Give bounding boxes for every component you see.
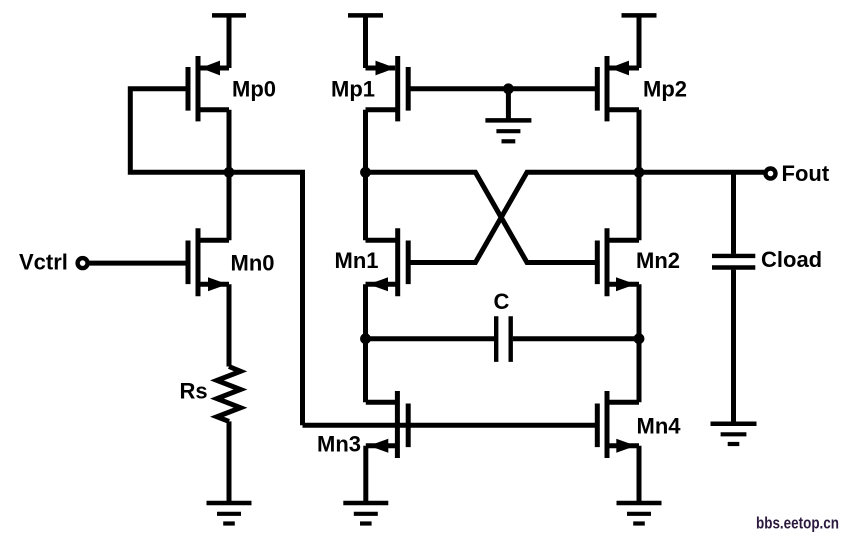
- wire Vctrl to Mn0 gate: [89, 261, 188, 266]
- terminal Vctrl: [78, 258, 88, 268]
- svg-text:C: C: [494, 289, 510, 314]
- ground below Rs: [207, 503, 252, 524]
- svg-text:Rs: Rs: [180, 379, 208, 404]
- wire Mn4 source to ground: [637, 446, 642, 503]
- wire cross-couple: Mp2 node to Mn1 gate: [408, 172, 639, 262]
- resistor Rs: [217, 367, 241, 422]
- node E: capacitor left junction: [360, 333, 371, 344]
- svg-text:Mn2: Mn2: [636, 248, 680, 273]
- transistor Mn0: [188, 228, 229, 296]
- svg-text:bbs.eetop.cn: bbs.eetop.cn: [756, 514, 839, 533]
- ground at Mp1/Mp2 gate bus: [485, 89, 531, 142]
- svg-text:Mn1: Mn1: [335, 248, 379, 273]
- VDD supply bar above Mp1: [348, 15, 383, 68]
- transistor Mn2: [597, 228, 639, 296]
- transistor Mn1: [366, 228, 409, 296]
- transistor Mn3: [366, 391, 408, 458]
- transistor Mp2: [597, 56, 639, 121]
- node A: Mp0 drain junction: [224, 167, 235, 178]
- node D: Mp2 drain junction: [634, 167, 645, 178]
- node B: gate-bus ground junction: [503, 83, 514, 94]
- wire resistor to ground: [227, 421, 232, 503]
- capacitor C: [496, 316, 511, 362]
- wire Mp0 gate feedback loop to drain node and down to Mn3 gate: [130, 89, 302, 426]
- wire Fout node down to Cload: [731, 172, 736, 254]
- transistor Mp0: [188, 56, 229, 121]
- wire Mn2 source down through C node to Mn4 drain: [637, 284, 642, 402]
- wire cross-couple: Mp1 node to Mn2 gate: [366, 172, 598, 262]
- svg-text:Fout: Fout: [782, 161, 830, 186]
- capacitor Cload: [712, 256, 755, 268]
- ground below Mn4: [617, 503, 662, 524]
- svg-text:Vctrl: Vctrl: [19, 250, 68, 275]
- wire Mp1 drain through node down to Mn1 drain: [363, 110, 368, 241]
- wire C node left to capacitor: [366, 336, 495, 341]
- wire Mn1 source down through C node to Mn3 drain: [363, 284, 368, 402]
- wire Mn0 drain up to node A: [227, 172, 232, 240]
- wire Cload to ground: [731, 270, 736, 424]
- transistor Mp1: [366, 56, 409, 121]
- svg-text:Mn4: Mn4: [637, 414, 682, 439]
- transistor Mn4: [597, 391, 639, 458]
- wire output node to Fout terminal: [639, 170, 764, 175]
- svg-text:Mp0: Mp0: [232, 77, 276, 102]
- svg-text:Mp1: Mp1: [331, 77, 375, 102]
- svg-text:Mn0: Mn0: [231, 251, 275, 276]
- wire Mn3 source to ground: [363, 446, 368, 503]
- ground below Cload: [711, 424, 757, 444]
- node C1: Mp1 drain junction: [360, 167, 371, 178]
- VDD supply bar above Mp2: [622, 15, 657, 68]
- wire capacitor to C node right: [513, 336, 639, 341]
- node F: capacitor right junction: [634, 333, 645, 344]
- wire Mp2 drain through node down to Mn2 drain: [637, 110, 642, 241]
- svg-text:Cload: Cload: [761, 247, 822, 272]
- svg-text:Mp2: Mp2: [643, 77, 687, 102]
- terminal Fout: [766, 169, 776, 179]
- svg-text:Mn3: Mn3: [317, 432, 361, 457]
- wire Mn0 source down to resistor: [227, 284, 232, 366]
- wire Mn3-Mn4 gate bus: [303, 423, 598, 428]
- wire Mp0 drain down to node: [227, 110, 232, 173]
- VDD supply bar above Mp0: [212, 15, 246, 68]
- ground below Mn3: [343, 503, 388, 524]
- wire Mp1-Mp2 gate bus: [408, 86, 597, 91]
